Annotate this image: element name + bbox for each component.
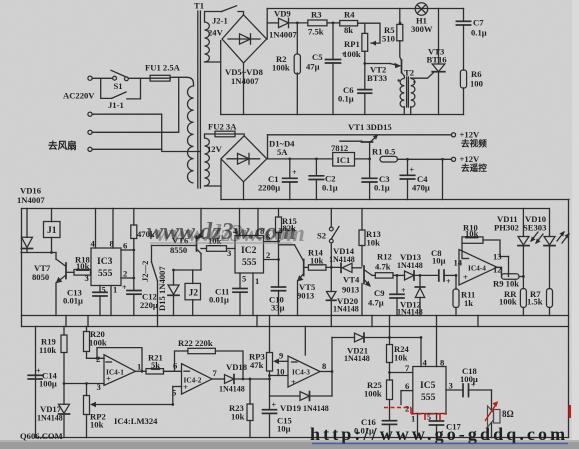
resistor R16 10k	[201, 236, 235, 251]
wire IC2 pin4	[239, 209, 241, 236]
diode VD16	[17, 186, 56, 253]
resistor R22 feedback	[175, 338, 244, 379]
wire IC4-1 output	[136, 370, 147, 372]
wire row2 top rail	[268, 134, 452, 136]
capacitor C1	[258, 159, 297, 200]
op-amp U4A (IC4-1)	[64, 354, 141, 392]
wire secondary2 bottom lead	[205, 185, 222, 187]
wire bridge1 bottom vertex to rail	[243, 63, 245, 115]
transistor VT7 8050	[32, 253, 66, 316]
wire bridge2 out to IC1	[267, 158, 333, 160]
node fan terminal 4	[88, 147, 92, 151]
capacitor C3	[362, 159, 390, 199]
resistor R7	[527, 289, 553, 316]
capacitor C2	[309, 159, 338, 200]
wire terminal1 to S1	[92, 77, 112, 79]
wire secondary1 top lead	[205, 12, 222, 23]
IC U1 7812	[331, 143, 370, 166]
capacitor C15	[263, 401, 292, 438]
node fan terminal 3	[88, 130, 92, 134]
wire middle band +12V top rail	[22, 208, 549, 210]
transistor VT1 (3DD15)	[340, 135, 378, 159]
watermark dz3w	[147, 219, 305, 247]
wire VD21 to IC5 pin4	[420, 338, 422, 367]
wire IC3 pin4	[95, 209, 97, 249]
potentiometer RP2	[84, 384, 173, 438]
capacitor C17 on IC5 pin5	[427, 413, 462, 438]
transformer T2	[398, 68, 416, 115]
wire row2 bottom rail	[221, 199, 569, 201]
wire fan terminal 2	[92, 114, 200, 151]
wire secondary1 bottom lead	[205, 61, 221, 63]
diode VD14	[329, 246, 362, 272]
node +12V remote terminal	[451, 154, 487, 173]
relay J2	[185, 283, 201, 315]
wire middle band bottom rail	[22, 315, 569, 317]
wire IC5 pin6 stub	[401, 381, 413, 405]
transformer T1 core	[194, 1, 204, 189]
resistor R5	[382, 9, 403, 61]
resistor R13	[359, 209, 381, 267]
wire FU2 to bridge2	[235, 134, 244, 136]
diode VD17	[37, 384, 70, 438]
wire IC2 pin2 stub	[264, 259, 279, 261]
op-amp U4D (IC4-4)	[454, 250, 498, 286]
capacitor C4	[400, 159, 430, 199]
node AC terminal 1	[88, 76, 92, 80]
switch S2	[317, 209, 339, 268]
wire fuse to transformer primary	[170, 77, 193, 86]
fuse FU1	[145, 63, 181, 82]
capacitor C18 on IC5 pin3	[446, 366, 492, 397]
capacitor C13 on IC3 pin5	[63, 285, 107, 316]
op-amp U4B (IC4-2)	[172, 361, 218, 405]
transistor VT2 (BT33)	[365, 60, 405, 83]
watermark go-gddq	[310, 424, 568, 444]
wire right edge feed down	[568, 200, 570, 438]
transformer T1 primary winding	[188, 86, 194, 183]
wire VD9 branch	[267, 22, 278, 24]
wire bridge2 top corner to +rail	[267, 135, 269, 159]
resistor R21	[146, 353, 182, 375]
resistor R11	[453, 275, 475, 315]
wire IC4-2 output	[212, 378, 225, 380]
wire bridge1 right vertex up	[266, 9, 268, 40]
IC U3 555 (IC3)	[85, 248, 122, 286]
potentiometer RP1	[343, 23, 368, 63]
resistor R15 82k	[276, 209, 297, 288]
wire inter-band ticks	[66, 316, 478, 327]
resistor R2	[272, 23, 300, 115]
IC U5 555 (IC5)	[413, 327, 446, 414]
capacitor C14	[28, 367, 57, 389]
thyristor VT3 (BT16)	[415, 9, 447, 115]
diode VD20	[327, 267, 359, 315]
capacitor C16	[354, 417, 397, 438]
wire IC2 pin6 stub	[264, 241, 279, 243]
wire fan terminal 3 (tap to fuse line)	[92, 77, 179, 132]
wire IC3 pin1	[110, 286, 112, 316]
resistor R10 feedback	[462, 223, 509, 277]
wire top section bottom rail	[221, 114, 464, 116]
wire IC2 pin8	[257, 209, 259, 236]
capacitor C7	[456, 9, 486, 71]
transistor VT5 9013	[279, 245, 316, 316]
node fan terminal 2	[88, 112, 92, 116]
resistor R23	[229, 378, 253, 438]
wire IC5 pin2 pin1	[405, 404, 418, 438]
wire IC2 pin1	[252, 273, 254, 316]
wire middle band left edge	[21, 209, 23, 327]
diode VD9	[269, 9, 308, 40]
switch S1	[111, 70, 128, 91]
wire bridge1 AC2 vertical to rail	[220, 41, 222, 115]
resistor R19	[39, 327, 67, 384]
wire VT6 collector to D15/J2	[174, 254, 202, 284]
resistor R12	[372, 252, 405, 279]
wire IC4-1 feedback loop	[97, 348, 142, 372]
capacitor C5	[306, 23, 347, 115]
wire fan terminal 4	[92, 148, 162, 150]
bridge rectifier VD5~VD8	[222, 15, 267, 86]
fuse FU2	[208, 122, 237, 137]
resistor RR	[499, 289, 526, 316]
wire bridge2 AC2 vertical to rail2	[220, 160, 222, 200]
wire top rail	[267, 8, 463, 10]
wire +12V remote branch down	[442, 159, 444, 199]
node +12V video terminal	[451, 130, 487, 149]
capacitor C11 on IC2 pin5	[209, 273, 247, 316]
capacitor C12	[122, 283, 158, 316]
transformer T1 secondary 12V winding	[205, 138, 210, 186]
lamp H1	[411, 3, 433, 34]
LED VD10 SE303	[523, 209, 570, 289]
relay contact J1-1	[101, 78, 141, 110]
wire bottom band bottom edge	[36, 437, 569, 439]
resistor R9	[493, 267, 523, 288]
switch contact J2-1	[208, 6, 244, 38]
capacitor C8	[431, 248, 456, 286]
wire IC5 pin7 stub	[390, 372, 413, 374]
diode VD12	[397, 275, 425, 316]
wire IC3 pin6 stub	[121, 249, 134, 251]
resistor R25	[364, 380, 393, 421]
op-amp U4C (IC4-3)	[270, 351, 333, 388]
potentiometer RP3	[249, 327, 288, 410]
resistor R17 470k	[131, 209, 155, 291]
resistor R20	[84, 327, 107, 359]
resistor R18	[67, 255, 91, 276]
capacitor C9	[368, 275, 406, 315]
resistor R6	[460, 69, 482, 115]
diode D15	[157, 266, 179, 316]
scan noise texture	[0, 0, 1, 1]
diode VD21	[332, 333, 421, 363]
wire IC3 pin8	[112, 209, 114, 249]
relay J1	[44, 209, 61, 253]
switch contact J2-2	[140, 246, 158, 316]
resistor R1 0.5	[372, 146, 452, 162]
wire bottom band left edge	[35, 327, 37, 438]
wire IC4-3 output vertical	[331, 338, 333, 397]
diode VD13	[397, 252, 439, 280]
capacitor C6	[338, 64, 372, 115]
transformer T1 secondary 24V winding	[205, 22, 210, 62]
transistor VT6 8550	[152, 209, 204, 256]
resistor R3	[308, 9, 340, 36]
wire junction dots	[50, 22, 525, 406]
diode VD19 feedback	[270, 392, 333, 413]
wire secondary2 top lead to FU2	[205, 134, 216, 138]
wire stub above IC4-3	[304, 327, 306, 356]
wire S1 to fuse	[128, 77, 150, 79]
bridge rectifier D1~D4	[207, 136, 295, 182]
capacitor C10	[269, 287, 286, 316]
resistor R4	[340, 9, 358, 35]
wire shared band border	[22, 326, 569, 328]
wire R4 to RP1 wiper	[358, 23, 380, 43]
resistor R14	[305, 248, 341, 271]
resistor R24	[387, 327, 410, 381]
transistor VT4 9013	[342, 266, 372, 316]
red annotation dashes	[384, 405, 570, 420]
wire bridge2 bottom vertex down	[243, 182, 245, 200]
diode VD18	[219, 362, 270, 394]
wire IC3 pin2 stub	[121, 277, 134, 279]
IC U2 555 (IC2)	[227, 236, 264, 274]
speaker B (8 ohm)	[485, 390, 514, 438]
photodiode VD11 PH302	[494, 209, 543, 289]
